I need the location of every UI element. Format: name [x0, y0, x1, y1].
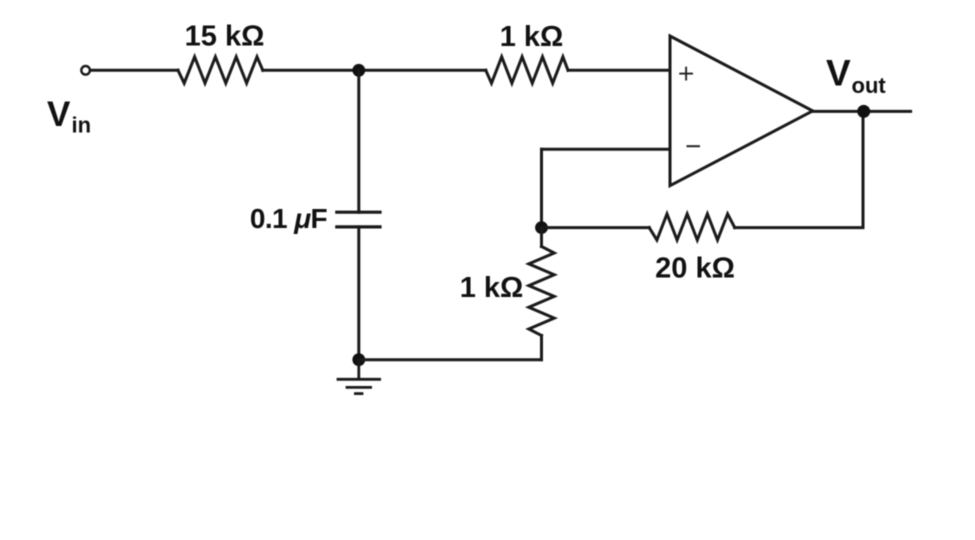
node B junction dot: [535, 221, 548, 234]
svg-text:V: V: [47, 95, 71, 134]
wire op-amp inverting input to left corner: [542, 148, 671, 151]
svg-text:out: out: [852, 73, 887, 98]
op-amp plus input marking: [679, 67, 693, 81]
wire down to node B: [540, 149, 543, 227]
resistor R4 20 kOhm feedback: [649, 214, 735, 240]
input terminal (open circle): [81, 66, 90, 75]
resistor R2 1 kOhm: [486, 57, 568, 83]
svg-text:1 kΩ: 1 kΩ: [460, 272, 524, 304]
wire R2 to op-amp noninverting input: [568, 69, 670, 72]
wire ground node to R3 bottom: [359, 358, 542, 361]
svg-text:1 kΩ: 1 kΩ: [500, 21, 564, 53]
node A junction dot: [352, 64, 365, 77]
svg-text:V: V: [826, 53, 851, 94]
wire node B to R4: [542, 226, 650, 229]
op-amp minus input marking: [687, 145, 701, 147]
op-amp U1 triangle: [670, 36, 813, 186]
svg-text:0.1 μF: 0.1 μF: [250, 203, 328, 234]
wire R1 to node A to R2: [263, 69, 486, 72]
ground node junction dot: [352, 353, 365, 366]
wire input terminal to R1: [91, 69, 178, 72]
wire capacitor C1 to ground node: [357, 227, 360, 360]
svg-text:in: in: [72, 113, 92, 138]
wire node B to R3 top: [540, 228, 543, 247]
resistor R3 1 kOhm vertical: [529, 247, 554, 336]
wire R4 to output node (right and up): [735, 111, 863, 227]
svg-text:15 kΩ: 15 kΩ: [185, 21, 265, 53]
wire node A down to capacitor C1: [357, 70, 360, 212]
wire R3 bottom lead: [540, 336, 543, 360]
node Vout junction dot: [857, 105, 870, 118]
svg-text:20 kΩ: 20 kΩ: [655, 253, 735, 285]
ground symbol: [337, 360, 381, 394]
label Vin: [47, 95, 91, 138]
wire op-amp output: [813, 110, 911, 113]
capacitor C1 0.1 uF: [335, 212, 381, 227]
resistor R1 15 kOhm: [178, 57, 263, 83]
label Vout: [826, 53, 886, 99]
